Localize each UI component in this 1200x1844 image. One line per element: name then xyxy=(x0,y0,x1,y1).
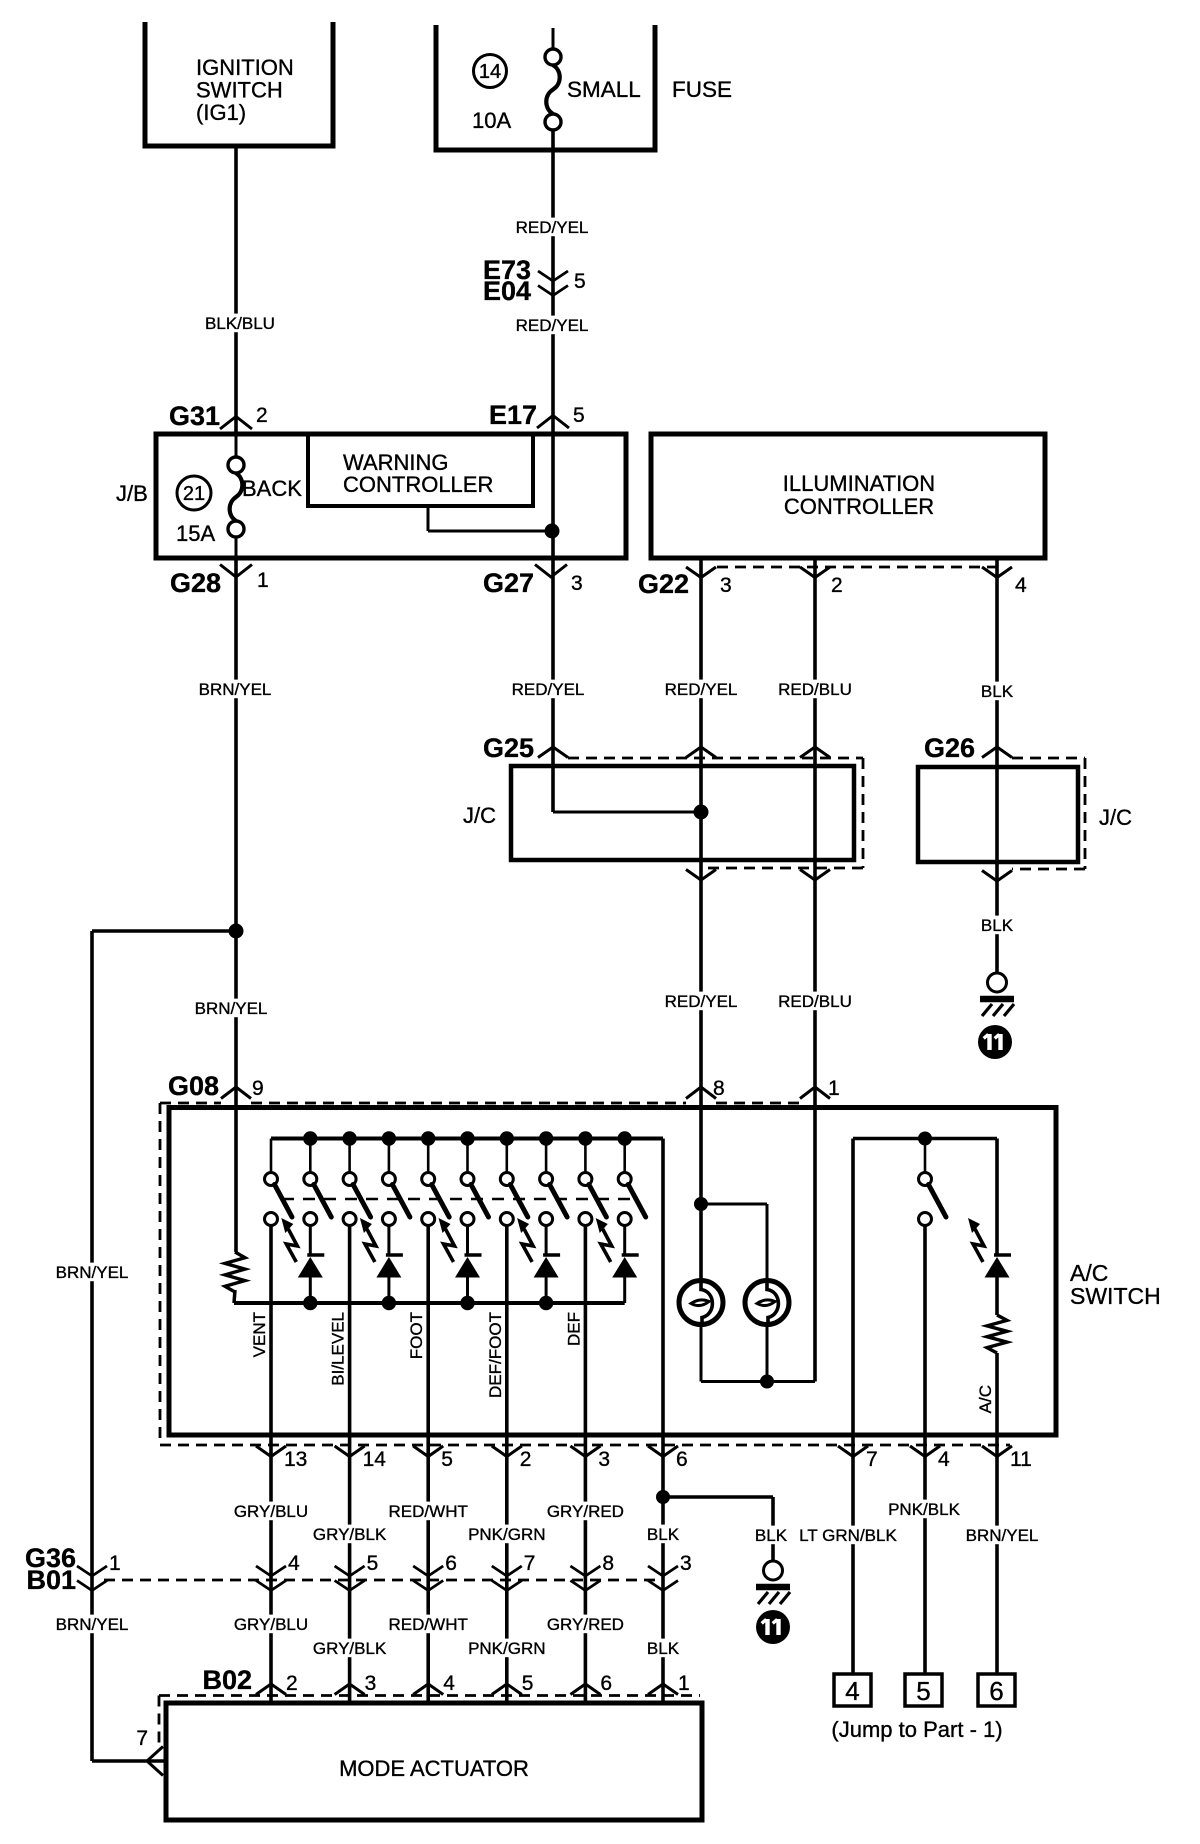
circled 11 ground id lower xyxy=(756,1610,790,1644)
wire G22-3 to A/C pin 8 (RED/YEL) xyxy=(699,558,703,1282)
A/C LED arrow xyxy=(973,1229,984,1262)
return bus junction node xyxy=(382,1296,396,1310)
svg-text:FOOT: FOOT xyxy=(407,1312,426,1359)
G25 top chevrons xyxy=(538,747,568,758)
svg-text:GRY/BLK: GRY/BLK xyxy=(313,1525,387,1544)
svg-text:(IG1): (IG1) xyxy=(196,100,246,125)
G26 dashed boundary xyxy=(1012,757,1085,760)
jump terminal 6 box xyxy=(978,1674,1015,1706)
bus junction node xyxy=(618,1131,632,1145)
bus junction node xyxy=(500,1131,514,1145)
LED arrow xyxy=(286,1229,297,1262)
svg-text:14: 14 xyxy=(363,1448,387,1471)
svg-text:DEF/FOOT: DEF/FOOT xyxy=(486,1312,505,1398)
G22 pin 4 chevron xyxy=(982,567,1012,578)
svg-text:8: 8 xyxy=(713,1077,725,1100)
svg-text:GRY/BLK: GRY/BLK xyxy=(313,1639,387,1658)
mode switch contact column 10 xyxy=(623,1139,626,1173)
label BLK xyxy=(978,682,1015,701)
mode switch pin wires to mode actuator xyxy=(269,1226,273,1704)
svg-text:4: 4 xyxy=(845,1676,859,1706)
connector E17 pin 5 chevron xyxy=(537,416,569,429)
label RED/YEL top xyxy=(513,218,591,237)
G26 solid box xyxy=(918,767,1078,862)
fuse symbol small fuse 10A xyxy=(545,49,561,65)
ground symbol lower BLK xyxy=(764,1561,783,1580)
svg-text:RED/BLU: RED/BLU xyxy=(778,680,852,699)
svg-text:6: 6 xyxy=(676,1448,688,1471)
G22 pin 3 chevron xyxy=(686,567,716,578)
connector G22 dashed line xyxy=(717,566,997,569)
label RED/BLU xyxy=(776,680,855,699)
warning controller output wire xyxy=(427,506,430,531)
svg-text:2: 2 xyxy=(286,1672,298,1695)
label BRN/YEL mid xyxy=(192,999,270,1018)
svg-text:BLK/BLU: BLK/BLU xyxy=(205,314,275,333)
lamp return wires xyxy=(700,1324,703,1382)
svg-text:4: 4 xyxy=(1015,574,1027,597)
mode switch contact column 1 xyxy=(270,1139,273,1173)
svg-text:3: 3 xyxy=(365,1672,377,1695)
svg-text:6: 6 xyxy=(600,1672,612,1695)
wire E17 through J/B to G27 xyxy=(551,434,555,558)
label RED/BLU mid xyxy=(776,992,855,1011)
A/C LED resistor xyxy=(987,1315,1007,1353)
svg-text:G27: G27 xyxy=(483,568,534,598)
mode switch contact column 3 xyxy=(348,1139,351,1173)
svg-text:5: 5 xyxy=(916,1676,930,1706)
mode switch contact column 5 xyxy=(427,1139,430,1173)
label BRN/YEL xyxy=(196,680,274,699)
bus junction node xyxy=(460,1131,474,1145)
illumination controller box xyxy=(651,434,1045,558)
label BRN/YEL left branch xyxy=(53,1263,131,1282)
jump terminal 4 box xyxy=(834,1674,871,1706)
wire labels above B02 xyxy=(53,1615,131,1634)
wire G27 into G25 (RED/YEL) xyxy=(551,558,555,812)
illumination lamp 1 xyxy=(679,1281,723,1325)
mode switch common bus xyxy=(271,1137,663,1141)
svg-text:G31: G31 xyxy=(169,401,220,431)
mode switch contact column 6 xyxy=(466,1139,469,1173)
svg-text:1: 1 xyxy=(257,569,269,592)
wire ignition switch to J/B (BLK/BLU) xyxy=(234,146,238,434)
G25 dashed boundary xyxy=(568,757,863,760)
svg-text:PNK/GRN: PNK/GRN xyxy=(468,1525,545,1544)
svg-text:11: 11 xyxy=(1010,1448,1032,1471)
svg-text:6: 6 xyxy=(445,1552,457,1575)
LED arrow xyxy=(522,1229,533,1262)
junction node BRN/YEL branch xyxy=(229,924,244,939)
lamp return junction node xyxy=(760,1375,774,1389)
A/C switch box xyxy=(169,1108,1056,1436)
svg-text:RED/BLU: RED/BLU xyxy=(778,992,852,1011)
svg-text:7: 7 xyxy=(524,1552,536,1575)
junction to G08 pin 9 wire xyxy=(234,931,238,1252)
svg-text:BRN/YEL: BRN/YEL xyxy=(966,1526,1039,1545)
svg-text:G26: G26 xyxy=(924,733,975,763)
circled 11 ground id xyxy=(978,1025,1012,1059)
A/C bottom pin chevrons xyxy=(256,1446,286,1457)
svg-text:3: 3 xyxy=(680,1552,692,1575)
svg-text:G25: G25 xyxy=(483,733,534,763)
svg-text:RED/YEL: RED/YEL xyxy=(516,316,589,335)
svg-text:2: 2 xyxy=(520,1448,532,1471)
mode switch contact column 2 xyxy=(309,1139,312,1173)
junction node warning controller to RED/YEL xyxy=(545,524,560,539)
svg-text:8: 8 xyxy=(602,1552,614,1575)
indicator LED VENT xyxy=(309,1226,312,1256)
svg-text:5: 5 xyxy=(441,1448,453,1471)
svg-text:2: 2 xyxy=(831,574,843,597)
svg-text:10A: 10A xyxy=(472,108,511,133)
mode switch contact column 8 xyxy=(545,1139,548,1173)
svg-text:RED/WHT: RED/WHT xyxy=(389,1615,468,1634)
wire G22-4 to ground (BLK) xyxy=(995,558,999,973)
illumination lamp 2 xyxy=(745,1281,789,1325)
B02 chevrons xyxy=(256,1684,286,1695)
svg-text:21: 21 xyxy=(183,483,205,505)
svg-text:SWITCH: SWITCH xyxy=(196,78,283,103)
svg-text:14: 14 xyxy=(479,61,501,83)
svg-text:DEF: DEF xyxy=(564,1312,583,1346)
A/C switch contact xyxy=(924,1139,927,1173)
wire fuse to J/B E17 (RED/YEL) xyxy=(552,28,555,49)
return bus junction node xyxy=(460,1296,474,1310)
svg-text:RED/YEL: RED/YEL xyxy=(665,680,738,699)
svg-text:SWITCH: SWITCH xyxy=(1070,1283,1161,1309)
svg-text:RED/YEL: RED/YEL xyxy=(665,992,738,1011)
label BLK/BLU xyxy=(203,314,278,333)
svg-text:RED/YEL: RED/YEL xyxy=(516,218,589,237)
svg-text:7: 7 xyxy=(866,1448,878,1471)
indicator LED DEF/FOOT xyxy=(545,1226,548,1256)
jump terminal 5 box xyxy=(905,1674,942,1706)
A/C indicator LED xyxy=(994,1253,1011,1256)
svg-text:G28: G28 xyxy=(170,568,221,598)
A/C LED feed wire xyxy=(995,1139,999,1256)
svg-text:B01: B01 xyxy=(26,1565,76,1595)
connector G31 pin 2 chevron xyxy=(220,417,252,430)
G36/B01 double chevrons xyxy=(77,1566,107,1576)
bus junction node xyxy=(303,1131,317,1145)
A/C section branch node xyxy=(918,1132,932,1146)
svg-text:3: 3 xyxy=(571,572,583,595)
wire G28 to BRN/YEL junction xyxy=(234,558,238,931)
svg-text:G08: G08 xyxy=(168,1071,219,1101)
svg-text:5: 5 xyxy=(367,1552,379,1575)
bus junction node xyxy=(421,1131,435,1145)
svg-text:CONTROLLER: CONTROLLER xyxy=(343,472,493,497)
svg-text:G22: G22 xyxy=(638,569,689,599)
svg-text:B02: B02 xyxy=(202,1665,252,1695)
wire labels above G36/B01 xyxy=(231,1502,310,1521)
indicator LED DEF xyxy=(623,1226,626,1256)
junction node in G25 xyxy=(694,805,709,820)
resistor on BRN/YEL pin 9 branch xyxy=(225,1252,245,1292)
return bus junction node xyxy=(303,1296,317,1310)
bus junction node xyxy=(342,1131,356,1145)
svg-text:BACK: BACK xyxy=(242,476,302,501)
G22 pin 2 chevron xyxy=(800,567,830,578)
svg-text:BLK: BLK xyxy=(981,682,1014,701)
label BLK below G26 xyxy=(978,916,1015,935)
svg-text:VENT: VENT xyxy=(250,1312,269,1357)
label RED/YEL 2 xyxy=(513,316,591,335)
return bus junction node xyxy=(539,1296,553,1310)
svg-text:BI/LEVEL: BI/LEVEL xyxy=(329,1312,348,1386)
label BRN/YEL right xyxy=(963,1526,1041,1545)
svg-text:RED/WHT: RED/WHT xyxy=(389,1502,468,1521)
label BLK ground branch xyxy=(752,1526,789,1545)
connector G27 pin 3 chevron xyxy=(535,565,567,578)
A/C pin 1 chevron xyxy=(800,1087,830,1099)
svg-text:PNK/GRN: PNK/GRN xyxy=(468,1639,545,1658)
svg-text:J/B: J/B xyxy=(116,481,148,506)
label RED/YEL xyxy=(662,680,740,699)
G25 solid box xyxy=(511,766,854,860)
svg-text:E04: E04 xyxy=(483,276,531,306)
svg-text:FUSE: FUSE xyxy=(672,77,732,102)
mode switch contact column 4 xyxy=(388,1139,391,1173)
illumination lamp branch node xyxy=(694,1197,708,1211)
svg-text:E17: E17 xyxy=(489,400,537,430)
G25 bottom chevrons xyxy=(686,870,716,881)
svg-text:GRY/BLU: GRY/BLU xyxy=(234,1615,308,1634)
bus junction node xyxy=(539,1131,553,1145)
circled 21 fuse id xyxy=(177,476,211,510)
LED arrow xyxy=(365,1229,376,1262)
bus junction node xyxy=(382,1131,396,1145)
mode switch contact column 9 xyxy=(584,1139,587,1173)
svg-text:13: 13 xyxy=(284,1448,307,1471)
fuse 21 BACK 15A xyxy=(235,434,238,458)
svg-text:CONTROLLER: CONTROLLER xyxy=(784,494,934,519)
B02 pin 7 entry chevron xyxy=(147,1747,163,1776)
svg-text:1: 1 xyxy=(828,1077,840,1100)
svg-text:BRN/YEL: BRN/YEL xyxy=(56,1615,129,1634)
BLK branch junction node xyxy=(656,1490,670,1504)
svg-text:GRY/RED: GRY/RED xyxy=(547,1502,624,1521)
indicator LED BI/LEVEL xyxy=(387,1226,390,1256)
svg-text:A/C: A/C xyxy=(976,1385,995,1413)
svg-text:4: 4 xyxy=(288,1552,300,1575)
svg-text:PNK/BLK: PNK/BLK xyxy=(888,1500,960,1519)
svg-text:IGNITION: IGNITION xyxy=(196,55,294,80)
svg-text:BLK: BLK xyxy=(981,916,1014,935)
connector E73/E04 inline xyxy=(538,271,568,281)
mode switch contact column 7 xyxy=(505,1139,508,1173)
A/C switch pin 7 wire xyxy=(851,1139,855,1675)
ignition switch box xyxy=(145,22,333,146)
svg-text:BRN/YEL: BRN/YEL xyxy=(56,1263,129,1282)
svg-text:4: 4 xyxy=(938,1448,950,1471)
mode actuator box xyxy=(166,1703,702,1820)
bus junction node xyxy=(578,1131,592,1145)
svg-text:BLK: BLK xyxy=(647,1639,680,1658)
svg-text:2: 2 xyxy=(256,404,268,427)
svg-text:BRN/YEL: BRN/YEL xyxy=(199,680,272,699)
svg-text:BLK: BLK xyxy=(647,1525,680,1544)
bus to pin 6 and BLK wire xyxy=(661,1139,665,1704)
LED arrow xyxy=(601,1229,612,1262)
svg-text:5: 5 xyxy=(574,270,586,293)
wire G22-2 to A/C pin 1 (RED/BLU) xyxy=(813,558,817,1382)
svg-text:BLK: BLK xyxy=(755,1526,788,1545)
indicator LED FOOT xyxy=(466,1226,469,1256)
wire G25 internal branch xyxy=(553,811,701,814)
ground symbol G26 BLK xyxy=(988,973,1007,992)
BLK ground branch xyxy=(663,1495,773,1499)
wire A/C switch to pin 4 xyxy=(923,1226,927,1675)
svg-text:3: 3 xyxy=(720,574,732,597)
connector G36/B01 dashed line xyxy=(104,1579,663,1582)
G26 top chevron xyxy=(982,747,1012,758)
svg-text:GRY/RED: GRY/RED xyxy=(547,1615,624,1634)
svg-text:7: 7 xyxy=(136,1727,148,1750)
fuse box xyxy=(436,25,655,150)
svg-text:SMALL: SMALL xyxy=(567,77,641,102)
svg-text:5: 5 xyxy=(522,1672,534,1695)
label PNK/BLK xyxy=(886,1500,963,1519)
svg-text:5: 5 xyxy=(573,404,585,427)
label LT GRN/BLK xyxy=(797,1526,900,1545)
svg-text:4: 4 xyxy=(443,1672,455,1695)
svg-text:15A: 15A xyxy=(176,521,215,546)
label RED/YEL xyxy=(509,680,587,699)
svg-text:1: 1 xyxy=(678,1672,690,1695)
connector G28 pin 1 chevron xyxy=(220,565,252,578)
svg-text:(Jump to Part - 1): (Jump to Part - 1) xyxy=(831,1717,1002,1742)
A/C section top link xyxy=(853,1137,997,1141)
svg-text:RED/YEL: RED/YEL xyxy=(512,680,585,699)
warning controller box xyxy=(308,434,533,506)
svg-text:MODE ACTUATOR: MODE ACTUATOR xyxy=(339,1756,529,1781)
G08 pin 9 chevron xyxy=(221,1087,251,1099)
svg-text:9: 9 xyxy=(252,1077,264,1100)
switch coupling dashed line xyxy=(282,1198,637,1201)
A/C LED to resistor to pin 11 xyxy=(995,1278,999,1316)
connector B02 dashed line xyxy=(159,1694,700,1697)
svg-text:BRN/YEL: BRN/YEL xyxy=(195,999,268,1018)
svg-text:6: 6 xyxy=(989,1676,1003,1706)
label RED/YEL mid xyxy=(662,992,740,1011)
mode LED return bus xyxy=(234,1301,625,1305)
svg-text:ILLUMINATION: ILLUMINATION xyxy=(783,471,935,496)
A/C pin 8 chevron xyxy=(686,1087,716,1099)
circled 14 fuse id xyxy=(474,55,507,88)
svg-text:1: 1 xyxy=(109,1552,121,1575)
svg-text:J/C: J/C xyxy=(463,803,496,828)
svg-text:GRY/BLU: GRY/BLU xyxy=(234,1502,308,1521)
junction block J/B box xyxy=(156,434,626,558)
left bypass wire BRN/YEL xyxy=(92,929,236,933)
svg-text:3: 3 xyxy=(598,1448,610,1471)
svg-text:J/C: J/C xyxy=(1099,805,1132,830)
svg-text:LT GRN/BLK: LT GRN/BLK xyxy=(799,1526,897,1545)
A/C switch dashed boundary xyxy=(251,1102,686,1105)
LED arrow xyxy=(444,1229,455,1262)
G26 bottom chevron xyxy=(982,871,1012,882)
